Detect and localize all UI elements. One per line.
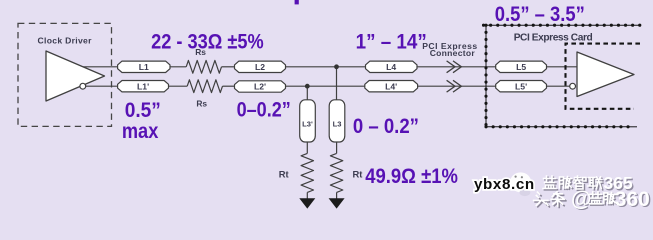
svg-text:L4': L4' [385,81,397,91]
svg-text:Clock Driver: Clock Driver [38,35,93,45]
svg-text:L2': L2' [254,82,266,92]
svg-text:L3: L3 [333,120,342,129]
svg-text:L5': L5' [515,81,527,91]
svg-text:@: @ [571,188,591,211]
svg-text:L1: L1 [139,62,149,72]
svg-text:L5: L5 [516,62,526,72]
svg-text:Rt: Rt [352,168,362,179]
svg-text:max: max [122,118,159,143]
svg-text:0 – 0.2”: 0 – 0.2” [353,113,419,138]
svg-text:0–0.2”: 0–0.2” [237,96,291,121]
svg-text:L2: L2 [255,62,265,72]
svg-text:Rt: Rt [279,168,289,179]
svg-text:PCI Express Card: PCI Express Card [514,33,593,44]
svg-text:Connector: Connector [430,48,476,58]
svg-text:0.5” – 3.5”: 0.5” – 3.5” [495,1,585,26]
svg-text:1” – 14”: 1” – 14” [356,28,427,53]
svg-text:L4: L4 [386,62,396,72]
svg-text:22 - 33Ω ±5%: 22 - 33Ω ±5% [151,29,264,54]
svg-text:ybx8.cn: ybx8.cn [474,176,535,193]
svg-text:Rs: Rs [196,98,207,108]
svg-text:L3': L3' [302,120,313,129]
svg-text:360: 360 [615,188,650,211]
svg-text:L1': L1' [137,81,149,91]
svg-text:49.9Ω ±1%: 49.9Ω ±1% [365,163,458,188]
